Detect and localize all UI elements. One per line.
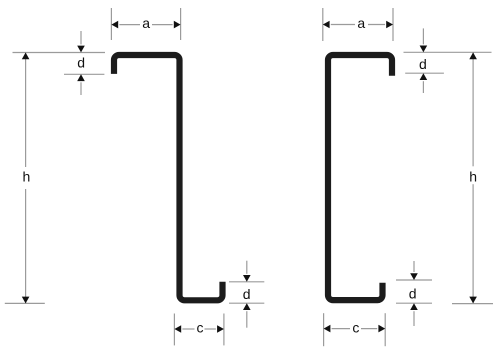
svg-text:d: d — [243, 286, 251, 302]
dimension h (right): arrowhead bottom — [469, 297, 477, 304]
dimension c (left): arrowhead left — [174, 325, 181, 333]
dimension a (left): extension line right — [180, 8, 182, 40]
dimension c (left): extension line left — [173, 314, 175, 346]
dimension d (top-right lip of C): lower extension line — [405, 72, 444, 74]
dimension d (top-left lip): upper arrow line — [80, 31, 82, 44]
dimension h (right): dimension line upper segment — [472, 52, 474, 166]
dimension h (left): arrowhead bottom — [22, 297, 30, 304]
dimension d (top-right lip of C): lower arrow line — [422, 81, 424, 93]
C-profile (right section outline) — [328, 55, 392, 300]
dimension d (bottom-right lip of C): upper arrow line — [413, 261, 415, 272]
dimension h (left): bottom extension line — [5, 302, 45, 304]
svg-text:c: c — [197, 320, 204, 336]
dimension c (right): extension line left — [323, 313, 325, 346]
dimension h (right): dimension line lower segment — [472, 184, 474, 303]
dimension h (left): dimension line upper segment — [25, 53, 27, 168]
dimension d (top-right lip of C): upper arrow line — [422, 28, 424, 44]
dimension h (left): top extension line — [13, 52, 106, 54]
dimension d (bottom-right lip of Z): lower extension line — [229, 302, 264, 304]
dimension a (right): dimension line left segment — [331, 24, 355, 26]
dimension d (bottom-right lip of Z): upper arrowhead — [243, 275, 251, 282]
svg-text:a: a — [357, 15, 365, 31]
dimension h (right): arrowhead top — [469, 52, 477, 59]
dimension d (bottom-right lip of Z): upper extension line — [229, 281, 264, 283]
dimension d (top-left lip): lower extension line — [64, 73, 104, 75]
dimension d (bottom-right lip of C): upper extension line — [396, 279, 432, 281]
dimension c (right): arrowhead left — [324, 325, 331, 333]
dimension a (right): extension line left — [322, 8, 324, 41]
dimension d (bottom-right lip of C): upper arrowhead — [410, 273, 418, 280]
dimension d (bottom-right lip of Z): lower arrow line — [246, 311, 248, 328]
dimension a (left): extension line left — [110, 8, 112, 40]
dimension c (left): dimension line left segment — [182, 328, 194, 330]
dimension a (left): dimension line right segment — [152, 24, 173, 26]
dimension d (top-right lip of C): upper arrowhead — [420, 46, 428, 53]
dimension a (left): dimension line left segment — [119, 24, 140, 26]
dimension d (top-left lip): lower arrowhead — [77, 74, 85, 81]
svg-text:d: d — [77, 55, 85, 71]
dimension d (bottom-right lip of Z): lower arrowhead — [243, 303, 251, 310]
dimension a (right): extension line right — [392, 8, 394, 41]
dimension d (top-left lip): lower arrow line — [80, 82, 82, 95]
dimension a (right): dimension line right segment — [368, 24, 385, 26]
svg-text:a: a — [142, 15, 150, 31]
svg-text:d: d — [409, 286, 417, 302]
dimension a (left): arrowhead right — [174, 21, 181, 29]
dimension d (bottom-right lip of C): lower arrowhead — [410, 303, 418, 310]
dimension c (right): arrowhead right — [378, 325, 385, 333]
dimension c (left): extension line right — [223, 314, 225, 346]
svg-text:d: d — [419, 56, 427, 72]
dimension h (left): dimension line lower segment — [25, 189, 27, 303]
dimension a (left): arrowhead left — [111, 21, 118, 29]
dimension c (right): dimension line right segment — [361, 328, 377, 330]
dimension d (top-right lip of C): lower arrowhead — [420, 73, 428, 80]
dimension d (bottom-right lip of C): lower arrow line — [413, 311, 415, 326]
svg-text:h: h — [23, 169, 31, 185]
dimension c (left): dimension line right segment — [205, 328, 216, 330]
svg-text:c: c — [352, 320, 359, 336]
dimension h (right): bottom extension line — [452, 303, 493, 305]
dimension a (right): arrowhead left — [323, 21, 330, 29]
dimension d (bottom-right lip of Z): upper arrow line — [246, 261, 248, 274]
dimension h (left): arrowhead top — [22, 53, 30, 60]
dimension a (right): arrowhead right — [386, 21, 393, 29]
dimension d (bottom-right lip of C): lower extension line — [396, 302, 432, 304]
Z-profile (left section outline) — [114, 55, 223, 300]
dimension c (right): extension line right — [384, 313, 386, 346]
dimension c (right): dimension line left segment — [332, 328, 350, 330]
svg-text:h: h — [469, 169, 477, 185]
dimension d (top-left lip): upper arrowhead — [77, 46, 85, 53]
dimension d (top-right lip of C): upper extension line — [404, 51, 492, 53]
dimension c (left): arrowhead right — [217, 325, 224, 333]
